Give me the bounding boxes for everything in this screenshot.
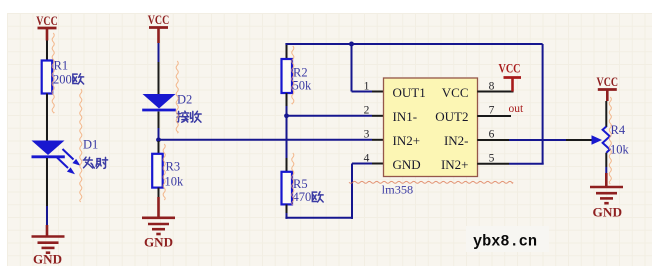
LED D1: [32, 141, 65, 157]
label GND (column 2): [144, 235, 173, 250]
label GND (column 1): [33, 252, 62, 267]
svg-text:5: 5: [489, 152, 495, 164]
svg-text:IN2-: IN2-: [444, 133, 469, 148]
wire rail drop to pin 1: [351, 44, 353, 92]
pin R3 bottom: [158, 188, 160, 197]
label D2: [177, 93, 192, 107]
svg-text:OUT2: OUT2: [435, 109, 468, 124]
ground GND stem (column 2): [157, 197, 160, 218]
svg-text:4: 4: [364, 152, 370, 164]
wire IN2+ to top rail: [509, 44, 544, 164]
power VCC net (column 1): [36, 13, 58, 41]
ground GND (R4): [590, 187, 623, 203]
svg-text:out: out: [509, 103, 525, 115]
op-amp U1 pin names: [393, 85, 469, 172]
ERC marker squiggle under U1: [349, 181, 513, 183]
pin D2 cathode: [158, 112, 160, 129]
pin 4 stub: [372, 163, 384, 165]
wire D2 to node: [158, 128, 160, 140]
svg-text:IN2+: IN2+: [441, 157, 469, 172]
pin 6 stub: [477, 139, 509, 141]
wire to pin OUT1: [352, 91, 373, 93]
svg-text:OUT1: OUT1: [393, 85, 426, 100]
label GND (R4): [593, 205, 623, 220]
resistor R5: [282, 172, 308, 205]
pin 1 stub: [372, 91, 384, 93]
svg-text:GND: GND: [393, 157, 421, 172]
svg-text:D1: D1: [83, 138, 98, 152]
label R4: [611, 123, 626, 137]
watermark ybx8.cn: [473, 233, 537, 251]
svg-text:R1: R1: [54, 59, 69, 73]
svg-text:R3: R3: [166, 160, 181, 174]
wire node to pin IN1-: [287, 115, 373, 117]
junction node R2/R5/IN1-: [284, 113, 289, 118]
label R1 value 200&#27431;: [53, 73, 84, 87]
wire top rail (R2 to IN2+ branch): [285, 43, 542, 45]
label D1 &#21457;&#23556;: [83, 157, 107, 168]
wire R4 to GND: [605, 167, 607, 173]
label R4 value: [610, 143, 630, 157]
pin D1 cathode: [46, 158, 48, 206]
svg-text:1: 1: [364, 81, 370, 93]
svg-text:VCC: VCC: [442, 85, 469, 100]
wire R2 to node: [286, 106, 288, 116]
pin 2 stub: [372, 115, 384, 117]
watermark background: [466, 226, 549, 252]
svg-text:470: 470: [293, 190, 312, 204]
wire photodiode node to pin IN2+: [159, 139, 373, 141]
svg-text:D2: D2: [177, 93, 192, 107]
wire node to R3: [158, 141, 160, 154]
power VCC net (column 2): [148, 12, 170, 43]
wire VCC to D2: [158, 43, 160, 62]
label U1 designator lm358: [382, 183, 414, 197]
svg-text:VCC: VCC: [36, 13, 58, 28]
svg-text:10k: 10k: [165, 175, 185, 189]
resistor R1: [42, 59, 68, 94]
label D1: [83, 138, 98, 152]
ground GND (column 1): [32, 237, 65, 253]
wire R5 to GND pin of U1: [285, 164, 372, 219]
svg-text:R5: R5: [293, 177, 308, 191]
power VCC net (U1 pin 8): [499, 61, 522, 92]
svg-text:lm358: lm358: [382, 183, 414, 197]
ERC marker squiggle near R4: [609, 97, 611, 184]
svg-text:VCC: VCC: [148, 12, 170, 27]
wire node down to R5: [286, 117, 288, 158]
svg-text:GND: GND: [33, 252, 62, 267]
junction node rail/OUT1: [349, 42, 354, 47]
LED D2 (photodiode): [142, 94, 176, 110]
pin R5 top: [286, 158, 288, 172]
wire R2 top to rail: [286, 43, 288, 59]
ground GND (column 2): [142, 218, 175, 234]
op-amp U1 lm358 body: [384, 78, 478, 177]
pin R4 top: [605, 101, 607, 127]
svg-text:VCC: VCC: [597, 74, 619, 89]
pin R2 bottom: [286, 93, 288, 106]
svg-text:50k: 50k: [293, 79, 313, 93]
pin R4 bottom: [605, 153, 607, 167]
potentiometer R4 element: [603, 127, 610, 153]
wire D1 to GND: [46, 206, 48, 225]
ERC marker squiggle near R2: [292, 46, 294, 104]
ground GND stem (R4): [605, 173, 608, 187]
label R5 value 470&#27431;: [293, 190, 324, 204]
ERC marker squiggle near R5: [292, 153, 294, 205]
svg-text:R2: R2: [293, 66, 308, 80]
junction node D2/R3/IN2+: [156, 137, 161, 142]
svg-text:ybx8.cn: ybx8.cn: [473, 233, 537, 251]
pin R1 bottom wire: [46, 94, 48, 119]
ERC marker squiggle near D1: [80, 89, 82, 202]
svg-text:VCC: VCC: [499, 61, 521, 76]
svg-text:IN2+: IN2+: [393, 133, 421, 148]
ERC marker squiggle near D2: [176, 61, 178, 133]
svg-text:GND: GND: [593, 205, 623, 220]
pin 5 stub: [477, 163, 509, 165]
svg-text:IN1-: IN1-: [393, 109, 418, 124]
resistor R2: [282, 59, 313, 93]
svg-text:R4: R4: [611, 123, 626, 137]
pin 8 stub: [477, 91, 513, 93]
wire IN2- to R4 wiper: [509, 139, 566, 141]
svg-text:GND: GND: [144, 235, 173, 250]
label D2 &#25509;&#25910;: [177, 111, 201, 122]
svg-text:3: 3: [364, 129, 370, 141]
LED D1 emission arrows: [57, 149, 81, 174]
svg-text:200: 200: [53, 73, 72, 87]
ERC marker squiggle near R1: [52, 33, 54, 113]
wire VCC to R1: [46, 41, 48, 61]
svg-text:6: 6: [489, 129, 495, 141]
svg-text:10k: 10k: [610, 143, 630, 157]
power VCC net (R4): [597, 74, 619, 101]
ground GND stem (column 1): [46, 225, 49, 237]
pin D2 anode: [158, 62, 160, 95]
svg-text:7: 7: [489, 105, 495, 117]
resistor R3: [152, 154, 184, 189]
op-amp U1 pin numbers: [364, 81, 495, 165]
ERC marker squiggle near R3: [163, 144, 165, 200]
potentiometer R4 wiper arrow: [566, 135, 602, 144]
svg-text:2: 2: [364, 105, 370, 117]
pin 3 stub: [372, 139, 384, 141]
pin R5 bottom: [286, 204, 288, 213]
net label out: [509, 103, 525, 115]
pin D1 anode: [46, 118, 48, 141]
pin 7 stub: [477, 115, 511, 117]
